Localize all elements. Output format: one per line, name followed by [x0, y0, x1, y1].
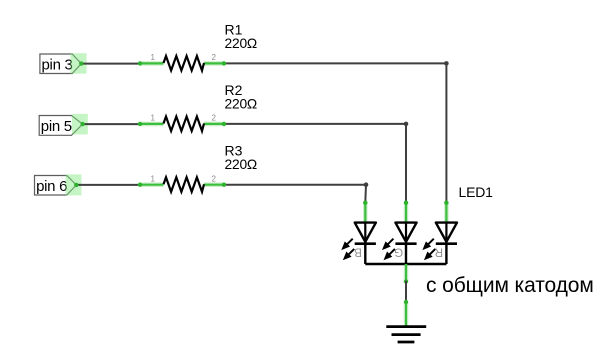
pin 5 label tag	[39, 116, 82, 136]
svg-text:R1: R1	[225, 21, 243, 37]
svg-text:2: 2	[212, 114, 217, 123]
wire pin3 to R1	[81, 63, 140, 65]
wire LED1 cathode to ground	[405, 282, 407, 303]
resistor R1	[138, 53, 226, 71]
wire pin6 to R3	[76, 184, 140, 186]
svg-text:1: 1	[151, 114, 156, 123]
ground symbol	[386, 300, 426, 342]
pin 3 highlight square	[71, 53, 87, 73]
pin 3 label tag	[40, 54, 81, 74]
resistor R3	[138, 174, 226, 192]
resistor R2	[138, 114, 226, 132]
svg-text:220Ω: 220Ω	[225, 157, 258, 172]
pin 5 highlight square	[72, 114, 88, 134]
LED1 red diode triangle	[436, 223, 457, 244]
svg-text:1: 1	[151, 53, 156, 62]
wire pin5 to R2	[83, 123, 140, 125]
svg-text:G: G	[394, 246, 403, 258]
pin 6 terminal dot	[74, 183, 78, 187]
wire R2 to LED G anode	[224, 124, 406, 202]
svg-text:2: 2	[212, 53, 217, 62]
pin 5 terminal dot	[80, 122, 84, 126]
wire R3 to LED B anode	[224, 185, 366, 203]
LED1 blue cathode link	[364, 244, 366, 264]
bend dot R2 wire	[404, 122, 409, 127]
LED1 common cathode leg	[404, 264, 408, 284]
LED1 green cathode link	[405, 244, 407, 264]
svg-text:pin 3: pin 3	[42, 56, 73, 73]
LED1 blue diode triangle	[355, 223, 376, 244]
svg-text:220Ω: 220Ω	[225, 36, 258, 51]
svg-text:pin 5: pin 5	[41, 118, 72, 135]
LED1 common cathode bus	[365, 263, 446, 265]
LED1 red emission arrows	[424, 239, 435, 259]
pin 6 label tag	[35, 176, 77, 196]
svg-text:1: 1	[151, 174, 156, 183]
svg-text:R: R	[435, 246, 443, 258]
svg-text:с общим катодом: с общим катодом	[426, 274, 594, 297]
svg-text:LED1: LED1	[459, 184, 494, 200]
LED1 red element anode leg	[444, 201, 448, 223]
pin 3 terminal dot	[79, 61, 83, 65]
pin 6 highlight square	[66, 174, 82, 195]
svg-text:pin 6: pin 6	[36, 178, 67, 195]
LED1 blue element anode leg	[363, 201, 367, 223]
LED1 green diode triangle	[395, 223, 416, 244]
bend dot R1 wire	[444, 61, 449, 66]
LED1 red cathode link	[445, 244, 447, 264]
LED1 blue emission arrows	[343, 239, 354, 259]
svg-text:B: B	[354, 246, 362, 258]
LED1 green element anode leg	[404, 201, 408, 223]
LED1 green emission arrows	[384, 239, 395, 259]
wire R1 to LED R anode	[224, 63, 446, 202]
svg-text:220Ω: 220Ω	[225, 96, 258, 111]
bend dot R3 wire	[364, 182, 369, 187]
svg-text:2: 2	[212, 174, 217, 183]
